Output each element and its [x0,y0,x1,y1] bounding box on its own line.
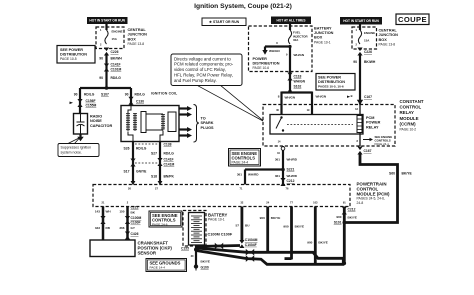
battery cable bundle lower [196,251,344,265]
svg-text:C156F: C156F [86,99,96,103]
svg-text:DB: DB [106,226,111,230]
battery label [208,213,228,222]
fuse F1 ENGINE 15A (left CJB) [105,30,108,44]
svg-text:WH/GN: WH/GN [285,96,296,100]
connector C167 (lower) [357,147,371,155]
svg-text:GN/YE: GN/YE [136,170,147,174]
thick ground wire S60 BK/YE to PCM [345,154,412,223]
connector C226 (right) [357,48,372,56]
relay coil ground wire pin 8 [357,133,360,147]
svg-text:RD/LG: RD/LG [111,76,122,80]
powertrain control module dashed outline [93,185,350,207]
svg-text:WH/RD: WH/RD [287,158,298,162]
relay coil [357,116,362,133]
svg-text:Suppresses ignition: Suppresses ignition [61,146,92,150]
capacitor case ground arrow [77,134,83,141]
svg-text:RD/LG: RD/LG [84,93,95,97]
svg-text:BK: BK [131,211,136,215]
svg-text:BOX: BOX [379,38,388,42]
splice S221 [281,168,294,172]
hot-in-start-or-run banner (left) [87,17,128,24]
svg-text:C100F: C100F [131,221,141,225]
svg-text:BN/PK: BN/PK [164,175,175,179]
wire to radio noise capacitor 90 RD/LG S107 [74,88,109,114]
svg-text:C101M: C101M [111,68,122,72]
svg-text:C155: C155 [181,247,189,251]
battery cable bundle upper [196,243,240,250]
PCM ground wire 900 BK/YE (pin 24) [260,201,281,254]
see power distribution box (page 10-5) [57,46,95,64]
svg-text:PAGE 24-6: PAGE 24-6 [152,222,168,226]
svg-text:143: 143 [95,210,100,214]
CCRM output wire 361 WH/RD [275,140,298,185]
crankshaft position sensor [90,240,172,257]
wire 90 BK/WH [99,54,122,89]
svg-text:8: 8 [278,95,280,99]
svg-text:BK/YE: BK/YE [348,216,357,220]
svg-text:90: 90 [125,93,129,97]
branch wire WH/RD to PCM pin 71 [237,170,283,191]
svg-text:DISTRIBUTION: DISTRIBUTION [60,53,87,57]
connector C118 [287,73,305,84]
svg-text:JUNCTION: JUNCTION [128,33,148,37]
battery junction box [249,24,313,72]
svg-text:RD/LG: RD/LG [135,93,146,97]
svg-text:SEE POWER: SEE POWER [318,76,341,80]
svg-text:TO: TO [201,117,206,121]
PCM wire 150 BK to CKP [119,201,141,240]
svg-text:POWER: POWER [253,57,268,61]
fuse F2 FUEL INJECTOR 30A [288,30,291,44]
svg-text:361: 361 [237,173,242,177]
svg-text:C141M: C141M [164,162,175,166]
svg-text:BOX: BOX [128,37,137,41]
svg-text:C100M C100F: C100M C100F [208,233,233,237]
svg-text:HFL Relay, PCM Power Relay,: HFL Relay, PCM Power Relay, [174,73,233,78]
ignition coil box [121,106,179,142]
svg-text:RD/LG: RD/LG [164,152,175,156]
svg-text:PAGE 10-2: PAGE 10-2 [400,128,417,132]
svg-text:C138: C138 [164,143,172,147]
see engine controls page 24-1 note [363,135,392,146]
svg-text:DISTRIBUTION: DISTRIBUTION [318,80,345,84]
relay switch contacts [276,116,284,131]
svg-text:HOT AT ALL TIMES: HOT AT ALL TIMES [276,18,305,22]
svg-text:BK/YE: BK/YE [318,241,327,245]
splice S102 [288,85,301,94]
svg-text:RD/LG: RD/LG [136,147,147,151]
svg-text:90: 90 [99,57,103,61]
svg-text:JUNCTION: JUNCTION [314,31,334,35]
brace to spark plugs [194,105,215,143]
svg-text:PAGE 10-1: PAGE 10-1 [314,40,331,44]
see engine controls page 24-4 box [229,149,261,167]
svg-text:MODULE: MODULE [400,116,419,121]
svg-text:PLUGS: PLUGS [201,126,215,130]
svg-text:IGNITION COIL: IGNITION COIL [151,92,177,96]
see grounds page 14-4 box [146,259,187,272]
connector C1004M / C1004F [239,238,257,248]
svg-text:PCM related components; pro-: PCM related components; pro- [174,62,234,67]
svg-text:B: B [351,94,353,98]
svg-text:C226: C226 [364,50,372,54]
note bubble: suppresses ignition system noise [58,138,99,157]
svg-text:BK/YE: BK/YE [201,260,210,264]
svg-text:(CCRM): (CCRM) [400,122,417,127]
svg-text:C226: C226 [111,50,119,54]
svg-text:PAGE 24-1: PAGE 24-1 [375,142,390,146]
svg-text:CONTROL: CONTROL [400,105,422,110]
PCM label [357,182,390,205]
connector C226 (left) [104,48,119,56]
svg-text:and Fuel Pump Relay.: and Fuel Pump Relay. [174,78,217,83]
svg-text:C100M: C100M [131,216,142,220]
svg-text:S60: S60 [389,172,395,176]
hot-at-all-times banner (middle) [271,17,311,25]
svg-text:G100: G100 [201,266,209,270]
svg-text:vides control of LFC Relay,: vides control of LFC Relay, [174,67,226,72]
svg-text:PAGES 10-5, 10-6: PAGES 10-5, 10-6 [318,85,344,89]
wire 361 WH/RD to PCM [275,174,298,191]
svg-text:SEE POWER: SEE POWER [60,48,83,52]
svg-text:C212: C212 [287,179,295,183]
svg-text:90: 90 [99,76,103,80]
svg-text:POWER: POWER [366,121,381,125]
see engine controls page 24-6 box [149,211,182,227]
svg-text:900: 900 [336,215,341,219]
wire 90 RD/LG [99,76,121,80]
svg-text:90: 90 [353,60,357,64]
connector on left coil wire [130,159,135,167]
svg-text:PAGE 13-8: PAGE 13-8 [379,43,396,47]
svg-text:PAGE 13-8: PAGE 13-8 [128,42,145,46]
svg-text:BK/YE: BK/YE [295,225,304,229]
svg-text:JUNCTION: JUNCTION [379,33,399,37]
svg-text:COUPE: COUPE [398,15,427,24]
svg-text:WH/GN: WH/GN [316,95,327,99]
see power distribution box (pages 10-5, 10-6) [316,74,355,91]
PCM power relay [270,115,381,135]
svg-text:WH: WH [106,210,112,214]
svg-text:CENTRAL: CENTRAL [379,29,398,33]
svg-text:WH/RD: WH/RD [287,174,298,178]
fuse F3 ENGINE 15A (right CJB) [358,30,361,44]
svg-text:CENTRAL: CENTRAL [128,28,147,32]
svg-text:S27: S27 [151,152,157,156]
svg-text:C212: C212 [131,206,139,210]
svg-text:system noise.: system noise. [61,150,82,154]
svg-text:RELAY: RELAY [400,110,415,115]
svg-text:57: 57 [236,224,240,228]
svg-text:C167: C167 [364,149,372,153]
svg-text:HOT IN START OR RUN: HOT IN START OR RUN [89,19,125,23]
radio noise capacitor [74,114,113,135]
PCM wire 143 WH to CKP [95,201,112,240]
svg-text:30A: 30A [293,38,299,42]
svg-text:PAGE 10-5: PAGE 10-5 [60,57,77,61]
wire 90 BK/WH (right) [353,54,376,105]
svg-text:C1004F: C1004F [245,243,257,247]
connector C141F / C101M [104,63,122,72]
PCM ground wire 900 S101 BK/YE (pin 91) [334,201,357,265]
battery [189,213,205,246]
coil driver wire C138 [151,142,174,186]
svg-text:PAGE 24-4: PAGE 24-4 [232,161,249,165]
svg-text:S18: S18 [151,175,157,179]
svg-text:Directs voltage and current to: Directs voltage and current to [174,56,231,61]
BJB internal feed wire [262,41,291,55]
svg-text:150: 150 [119,210,124,214]
svg-text:C141F: C141F [111,63,121,67]
svg-text:C212: C212 [348,208,356,212]
wire 90 RD/LG to ignition coil [125,88,146,106]
wire bar to PCM power relay [276,92,327,115]
svg-text:NOISE: NOISE [90,119,102,123]
svg-text:CAPACITOR: CAPACITOR [90,124,112,128]
CCRM label [400,99,424,132]
battery cable bundle middle [196,248,343,263]
svg-text:900: 900 [283,225,288,229]
svg-text:900: 900 [307,241,312,245]
connector C141F / C141M [157,157,174,166]
svg-text:C118: C118 [294,75,302,79]
note box: directs voltage and current [171,54,263,121]
svg-text:ENGINE: ENGINE [364,31,375,35]
CJB label (left) [128,28,148,46]
start-or-run milestone box [202,18,246,26]
PCM ground wire 900 BK/YE (pin 77) [283,201,304,260]
svg-text:★ START OR RUN: ★ START OR RUN [209,19,240,24]
svg-text:C1004M: C1004M [245,238,258,242]
svg-text:S101: S101 [334,221,342,225]
splice node S107 [80,86,131,90]
svg-text:BK/WH: BK/WH [111,57,123,61]
svg-text:24-8: 24-8 [357,201,364,205]
svg-text:900: 900 [260,216,265,220]
svg-text:ENGINE: ENGINE [112,30,123,34]
svg-text:103: 103 [313,201,318,205]
svg-text:BK/WH: BK/WH [364,60,376,64]
CJB label (right) [379,29,399,47]
ground G100 [194,264,209,270]
svg-text:C426: C426 [131,232,139,236]
svg-text:PAGE 14-4: PAGE 14-4 [150,266,166,270]
PCM ground wire 57 BU [236,201,251,242]
svg-text:15A: 15A [112,37,118,41]
PCM ground wire 900 BK/YE (pin 103) [307,201,328,265]
twisted pair dashes [135,144,158,163]
power distribution page 10-6 label [253,57,280,70]
CCRM pin 12 [355,105,360,116]
spark plug output arrows [179,106,192,138]
svg-text:PAGES 24-5, 24-6,: PAGES 24-5, 24-6, [357,196,385,200]
svg-text:DISTRIBUTION: DISTRIBUTION [253,61,280,65]
svg-text:CONSTANT: CONSTANT [400,99,424,104]
svg-text:C141F: C141F [164,157,174,161]
svg-text:PCM: PCM [366,116,374,120]
svg-text:C155M: C155M [86,103,97,107]
wire S18 BN/PK [151,175,174,179]
svg-text:C167: C167 [364,95,372,99]
coil driver wire S26 RD/LG [124,142,147,186]
svg-text:S102: S102 [294,85,302,89]
central junction box (left) [96,24,124,49]
svg-text:RELAY: RELAY [366,125,379,129]
svg-text:366: 366 [119,226,124,230]
svg-text:BATTERY: BATTERY [314,26,332,30]
svg-text:BOX: BOX [314,36,323,40]
CCRM dashed box [263,105,395,147]
connector C167 (upper) [347,94,372,104]
svg-text:343: 343 [95,226,100,230]
svg-text:BU: BU [245,224,250,228]
svg-text:Ignition System, Coupe (021-2): Ignition System, Coupe (021-2) [194,3,292,10]
battery ground wire BK/YE [191,245,210,265]
svg-text:15A: 15A [364,39,370,43]
relay actuation dashed line [287,124,353,126]
svg-text:PAGE 10-1: PAGE 10-1 [208,218,225,222]
PCM pin numbers for coil wires [128,187,158,191]
svg-text:SPARK: SPARK [201,121,214,125]
connector C156F / C155M [70,99,97,108]
svg-text:WH/GN: WH/GN [269,49,280,53]
svg-text:S107: S107 [101,93,109,97]
battery junction box label [314,26,334,44]
svg-text:WH/GN: WH/GN [294,53,305,57]
svg-text:WH/RD: WH/RD [248,173,259,177]
svg-text:S17: S17 [124,170,130,174]
hot-in-start-or-run banner (right) [340,17,382,25]
svg-text:SENSOR: SENSOR [138,250,157,255]
svg-text:361: 361 [275,174,280,178]
svg-text:BK/YE: BK/YE [271,216,280,220]
svg-text:PAGE 10-6: PAGE 10-6 [253,66,270,70]
svg-text:RADIO: RADIO [90,115,102,119]
wire S17 GN/YE [124,170,148,174]
svg-text:WH/GN: WH/GN [294,80,306,84]
svg-text:C130: C130 [136,100,144,104]
COUPE label box [396,14,429,25]
svg-text:90: 90 [74,93,78,97]
connector C130 [128,97,144,105]
svg-text:BK/YE: BK/YE [402,172,413,176]
svg-text:361: 361 [275,158,280,162]
wire WH/GN out of BJB [286,47,305,92]
central junction box (right) [352,25,377,50]
battery dashed box [183,211,206,247]
svg-text:S26: S26 [124,147,130,151]
svg-text:HOT IN START OR RUN: HOT IN START OR RUN [343,19,379,23]
svg-text:S221: S221 [287,168,295,172]
